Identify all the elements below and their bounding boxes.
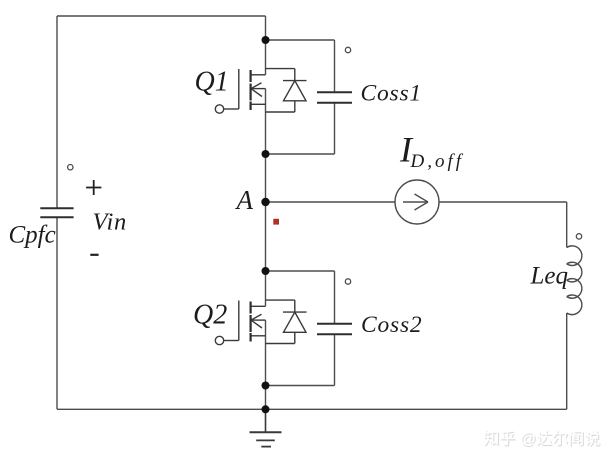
svg-text:Cpfc: Cpfc	[9, 221, 56, 248]
svg-text:Vin: Vin	[93, 209, 128, 236]
svg-text:Leq: Leq	[530, 263, 569, 290]
svg-text:Q1: Q1	[195, 67, 229, 98]
svg-text:Coss1: Coss1	[361, 81, 422, 107]
svg-text:A: A	[235, 185, 254, 215]
svg-text:Coss2: Coss2	[361, 312, 422, 338]
svg-text:知乎 @达尔闻说: 知乎 @达尔闻说	[483, 430, 600, 448]
svg-text:D,off: D,off	[410, 151, 465, 172]
svg-text:Q2: Q2	[193, 300, 227, 331]
